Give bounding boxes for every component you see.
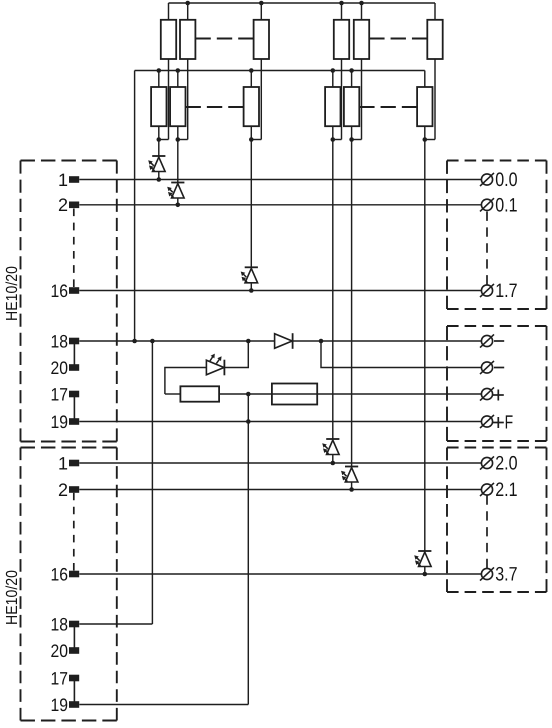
svg-text:HE10/20: HE10/20	[4, 266, 21, 321]
svg-text:19: 19	[51, 695, 69, 715]
svg-text:2.1: 2.1	[495, 479, 517, 501]
node: R13 to plus rail junction	[246, 392, 251, 397]
wire: jog joining resistor pair	[425, 139, 435, 141]
LED V2	[167, 140, 184, 205]
svg-text:0.0: 0.0	[495, 169, 517, 191]
svg-text:20: 20	[51, 641, 69, 661]
connector X2 internal dashed link	[73, 493, 75, 571]
resistor R7	[334, 3, 349, 140]
resistor R8	[354, 3, 369, 140]
pin X2-17	[51, 668, 80, 688]
wire: X2 pin17-19 link	[73, 678, 75, 705]
wire: plus riser to X2.19	[247, 394, 249, 705]
terminal 1.7	[480, 280, 518, 302]
pin X1-19	[51, 412, 80, 432]
pin X2-18	[51, 614, 80, 634]
node: resistor pair junction	[176, 137, 181, 142]
wire: X2.2 to terminal 2.1	[79, 489, 481, 491]
wire: dashed group link row2 left	[186, 106, 244, 108]
svg-text:16: 16	[51, 281, 69, 301]
connector X1 internal dashed link	[73, 209, 75, 288]
terminal - upper	[480, 334, 504, 347]
wire: second bus drop to minus rail	[134, 71, 136, 342]
fuse F1	[272, 384, 317, 405]
svg-text:2: 2	[58, 195, 68, 215]
pin X1-16	[51, 281, 80, 301]
svg-text:17: 17	[51, 384, 69, 404]
node: riser joins minus rail	[150, 339, 155, 344]
wire: LED V8 cathode riser	[224, 341, 248, 368]
wire: X1.1 to terminal 0.0	[79, 179, 481, 181]
node: resistor pair junction	[331, 137, 336, 142]
label X1 HE10/20	[4, 266, 21, 321]
node: R7 top	[339, 1, 344, 6]
LED V1	[148, 140, 165, 180]
pin X2-2	[58, 480, 79, 500]
resistor R4	[151, 71, 166, 140]
node: R8 top	[359, 1, 364, 6]
svg-text:16: 16	[51, 564, 69, 584]
svg-text:18: 18	[51, 331, 69, 351]
node: drop joins minus rail	[132, 339, 137, 344]
terminal block internal dashed link 0.1-1.7	[486, 212, 488, 285]
terminal - lower	[480, 361, 504, 374]
pin X2-20	[51, 641, 80, 661]
terminal block - + F	[447, 326, 547, 441]
LED V5	[341, 140, 358, 490]
wire: riser minus rail to X2.18	[151, 341, 153, 624]
node: resistor pair junction	[349, 137, 354, 142]
wire: X2.1 to terminal 2.0	[79, 462, 481, 464]
LED V4	[322, 140, 339, 464]
wire: jog joining resistor pair	[251, 139, 261, 141]
node: R5 top	[176, 68, 181, 73]
svg-text:18: 18	[51, 614, 69, 634]
pin X1-2	[58, 195, 79, 215]
node: R2 top	[185, 1, 190, 6]
node: V6 cathode to pin wire	[423, 572, 428, 577]
terminal block 2.0-3.7	[447, 448, 547, 593]
wire: X2.16 to terminal 3.7	[79, 573, 481, 575]
svg-text:1.7: 1.7	[495, 280, 517, 302]
pin X1-1	[58, 170, 79, 190]
svg-text:20: 20	[51, 358, 69, 378]
resistor R12	[417, 71, 432, 140]
node: V7 cathode junction	[319, 339, 324, 344]
svg-text:2: 2	[58, 480, 68, 500]
svg-text:F: F	[505, 413, 513, 434]
node: resistor pair junction	[249, 137, 254, 142]
pin X1-18	[51, 331, 80, 351]
pin X2-1	[58, 453, 79, 473]
wire: plus rail to terminal +	[248, 393, 481, 395]
wire: dashed group link row1 left	[195, 38, 253, 40]
node: R3 top	[259, 1, 264, 6]
pin X1-17	[51, 384, 80, 404]
node: V3 cathode to pin wire	[249, 288, 254, 293]
pin X2-19	[51, 695, 80, 715]
resistor R6	[244, 71, 259, 140]
wire: jog joining resistor pair	[333, 139, 342, 141]
terminal block 0.0-1.7	[447, 161, 547, 310]
wire: X1.2 to terminal 0.1	[79, 204, 481, 206]
svg-text:HE10/20: HE10/20	[4, 570, 21, 625]
wire: jog joining resistor pair	[352, 139, 362, 141]
pin X2-16	[51, 564, 80, 584]
svg-text:2.0: 2.0	[495, 453, 517, 475]
pin X1-20	[51, 358, 80, 378]
wire: X2.19 to plus riser	[79, 704, 248, 706]
connector X2 HE10/20	[21, 448, 117, 721]
node: V8 riser joins minus rail	[246, 339, 251, 344]
node: V1 cathode to pin wire	[157, 177, 162, 182]
node: resistor pair junction	[423, 137, 428, 142]
node: R4 top	[157, 68, 162, 73]
label X2 HE10/20	[4, 570, 21, 625]
svg-text:17: 17	[51, 668, 69, 688]
node: R10 top	[331, 68, 336, 73]
diode V7	[275, 333, 293, 349]
wire: top supply bus	[169, 2, 436, 4]
terminal 2.1	[480, 479, 518, 501]
node: resistor pair junction	[157, 137, 162, 142]
resistor R13	[165, 386, 248, 401]
wire: jog joining resistor pair	[178, 139, 188, 141]
connector X1 HE10/20	[21, 161, 117, 442]
wire: X2.18 to riser	[79, 623, 152, 625]
LED V6	[414, 140, 431, 575]
node: plus riser joins +F wire	[246, 419, 251, 424]
svg-text:3.7: 3.7	[495, 564, 517, 586]
svg-text:0.1: 0.1	[495, 194, 517, 216]
node: R6 top	[249, 68, 254, 73]
resistor R3	[254, 3, 269, 140]
wire: X1 pin17-19 link	[73, 394, 75, 422]
resistor R1	[161, 3, 176, 140]
node: R11 top	[349, 68, 354, 73]
wire: second supply bus	[135, 70, 425, 72]
resistor R11	[344, 71, 359, 140]
wire: X1.16 to terminal 1.7	[79, 290, 481, 292]
resistor R5	[170, 71, 185, 140]
wire: dashed group link row2 right	[359, 106, 417, 108]
terminal +	[480, 387, 504, 400]
resistor R10	[325, 71, 340, 140]
LED V8	[206, 354, 224, 376]
wire: minus branch to terminal -	[321, 341, 481, 368]
wire: LED V8 anode branch	[165, 368, 206, 395]
svg-text:1: 1	[58, 170, 68, 190]
wire: jog joining resistor pair	[159, 139, 169, 141]
terminal 2.0	[480, 453, 518, 475]
wire: X1 pin18-20 link	[73, 341, 75, 368]
wire: dashed group link row1 right	[369, 38, 427, 40]
LED V3	[241, 140, 258, 291]
svg-text:1: 1	[58, 453, 68, 473]
wire: X1.19 to terminal +F	[79, 421, 481, 423]
terminal 0.1	[480, 194, 518, 216]
svg-text:19: 19	[51, 412, 69, 432]
resistor R2	[180, 3, 195, 140]
node: V2 cathode to pin wire	[176, 203, 181, 208]
wire: X2 pin18-20 link	[73, 624, 75, 651]
resistor R9	[427, 3, 442, 140]
terminal 3.7	[480, 564, 518, 586]
terminal 0.0	[480, 169, 518, 191]
node: V5 cathode to pin wire	[349, 487, 354, 492]
node: V4 cathode to pin wire	[331, 461, 336, 466]
terminal block internal dashed link 2.1-3.7	[486, 496, 488, 569]
wire: X1.18 minus rail to terminal -	[79, 340, 481, 342]
terminal +F	[480, 413, 513, 434]
